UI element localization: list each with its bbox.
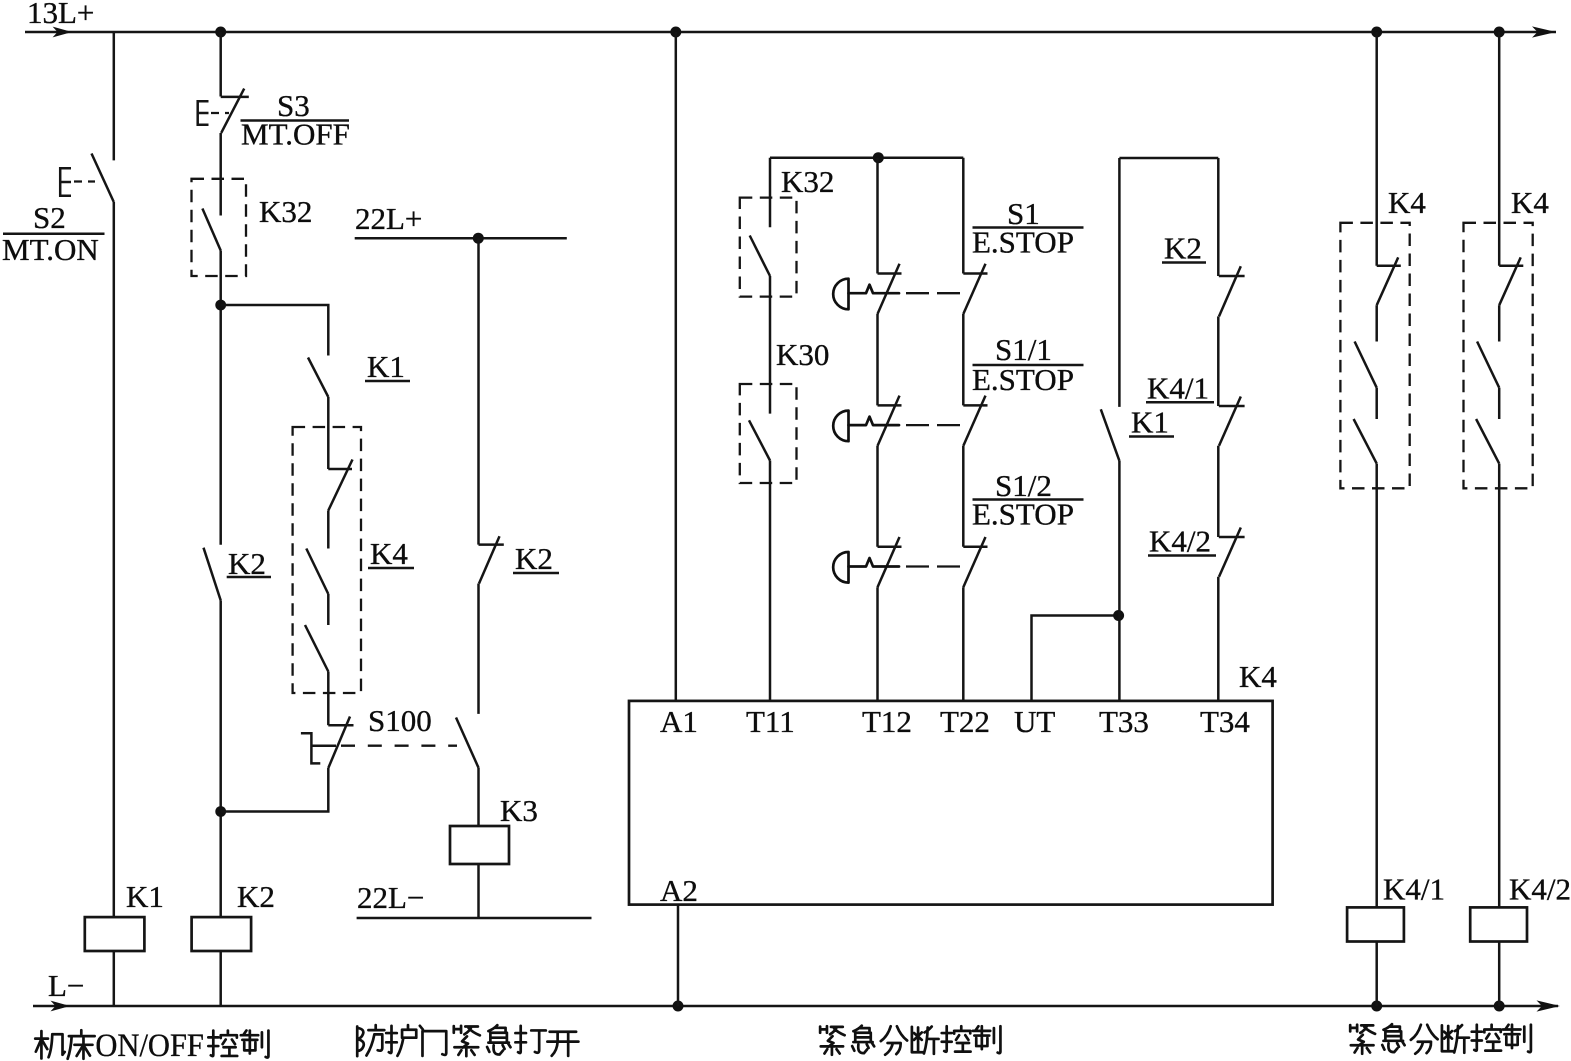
relay contact K4/2 (NC) [1219, 536, 1245, 539]
svg-text:K4: K4 [1388, 185, 1426, 220]
wire K32 to K30 [769, 276, 772, 414]
switch S1/1 contact (NC) [963, 404, 987, 407]
svg-text:E.STOP: E.STOP [972, 225, 1074, 260]
actuator E symbol of S2 [60, 168, 71, 195]
svg-text:K4/1: K4/1 [1383, 872, 1445, 907]
wire branch1 upper [113, 32, 116, 160]
mushroom head actuator row1 [833, 279, 848, 310]
wire K4/1 coil to bottom bus [1375, 942, 1378, 1007]
caption: emergency cutoff control (middle) [820, 1026, 1000, 1055]
node branch2 / S100 return [215, 806, 226, 817]
arrow at bottom bus right end [1537, 1000, 1561, 1011]
caption: machine ON/OFF control [35, 1028, 268, 1061]
svg-text:K2: K2 [237, 879, 275, 914]
relay coil K2 [192, 917, 252, 951]
svg-text:K1: K1 [1131, 405, 1169, 440]
mushroom head actuator row3 [833, 552, 848, 583]
relay contact K32 (NO, in dashed box) [192, 179, 247, 276]
wire 22L+ rail [355, 237, 567, 240]
node on bottom bus at K4/1 branch [1371, 1001, 1382, 1012]
actuator E symbol of S3 [198, 101, 209, 125]
node on bottom bus at K4/2 branch [1494, 1001, 1505, 1012]
relay contact group K4 (3 NO contacts in dashed box) [293, 427, 361, 693]
wire coil K2 to bottom bus [219, 951, 222, 1006]
svg-text:E.STOP: E.STOP [972, 362, 1074, 397]
dashed actuator link of S3 [211, 112, 229, 114]
svg-text:K4/2: K4/2 [1509, 872, 1571, 907]
node on top bus at K4/1 branch [1371, 27, 1382, 38]
dashed link row3 [906, 565, 929, 567]
e-stop contact row1 (NC) on T12 line [878, 272, 902, 275]
wire S1/1 to S1/2 [962, 446, 965, 547]
wire row2-row3 [876, 446, 879, 547]
switch S1 contact (NC) [963, 272, 987, 275]
svg-text:K1: K1 [367, 349, 405, 384]
svg-text:UT: UT [1014, 704, 1055, 739]
wire A2 to bottom bus [677, 905, 680, 1006]
svg-text:K32: K32 [781, 164, 834, 199]
relay contact K30 (NO, dashed box) [740, 384, 797, 483]
wire K4/2 coil to bottom bus [1498, 942, 1501, 1007]
switch S2 (MT.ON pushbutton, NO contact) [92, 154, 114, 203]
wire K4/1 branch upper [1375, 32, 1378, 266]
svg-text:A2: A2 [660, 873, 698, 908]
node UT/T33 junction [1113, 610, 1124, 621]
wire 22L- rail [357, 917, 592, 920]
svg-text:K4: K4 [370, 536, 408, 571]
wire K4 box to K4/2 coil [1498, 464, 1501, 908]
wire row3 to T12 terminal [876, 587, 879, 701]
relay coil K1 [85, 917, 145, 951]
dashed actuator link of S2 [74, 180, 95, 182]
svg-text:K30: K30 [776, 337, 829, 372]
dashed actuator link S100 [341, 745, 457, 747]
arrow on bottom bus left [51, 1001, 71, 1012]
wire K1 to T33 terminal [1118, 461, 1121, 701]
wire K2 contact to coil [219, 600, 222, 917]
position switch S100 (second pole, NO style) [456, 718, 479, 768]
svg-text:K3: K3 [500, 793, 538, 828]
svg-text:K4: K4 [1239, 659, 1277, 694]
svg-text:T12: T12 [862, 704, 912, 739]
wire UT terminal riser [1032, 616, 1119, 701]
wire S3 to K32 contact [219, 133, 222, 216]
wire K4/1 to K4/2 contact [1217, 446, 1220, 537]
svg-text:A1: A1 [660, 704, 698, 739]
svg-text:T34: T34 [1200, 704, 1250, 739]
wire S1 to S1/1 [962, 314, 965, 405]
wire S100 to K3 coil [477, 768, 480, 826]
wire K2 chain upper [1217, 158, 1220, 276]
relay contact K2 (NO) [204, 548, 221, 601]
relay contact K2 (NC) right chain [1219, 275, 1245, 278]
wire A1 branch [675, 32, 678, 701]
relay contact K4/1 (NC) [1219, 405, 1245, 408]
wire K4 box to K4/1 coil [1375, 464, 1378, 908]
arrow on top bus left [53, 27, 72, 38]
wire K30 to T11 terminal [769, 461, 772, 701]
wire connector above K32/K30 and S1 chains [770, 156, 963, 159]
dashed link row1 [906, 292, 929, 294]
safety relay module U1 box [629, 701, 1273, 905]
svg-text:S100: S100 [368, 703, 432, 738]
node on 22L+ rail [473, 233, 484, 244]
actuator hook of S100 [301, 733, 336, 763]
svg-text:MT.ON: MT.ON [2, 232, 99, 267]
caption: emergency cutoff control (right) [1350, 1024, 1531, 1054]
relay contact K32 (NO, dashed box) [740, 198, 797, 297]
e-stop contact row3 (NC) on T12 line [878, 546, 902, 549]
wire K3 coil to 22L- rail [477, 864, 480, 918]
wire coil K1 to bottom bus [113, 951, 116, 1006]
wire K4/2 to T34 terminal [1217, 577, 1220, 701]
relay contact group K4 (dashed box, branch K4/1) [1340, 223, 1409, 489]
svg-text:K1: K1 [126, 879, 164, 914]
wire node to first contact [876, 158, 879, 274]
node on top bus at branch 2 [215, 27, 226, 38]
svg-text:K4/2: K4/2 [1149, 524, 1211, 559]
svg-text:K4: K4 [1511, 185, 1549, 220]
wire K2 NC to S100 right contact [477, 584, 480, 714]
svg-text:K2: K2 [515, 541, 553, 576]
svg-text:T22: T22 [940, 704, 990, 739]
svg-text:22L+: 22L+ [355, 201, 422, 236]
svg-text:K4/1: K4/1 [1147, 371, 1209, 406]
wire top bus 13L+ [25, 31, 1556, 34]
wire K4/2 branch upper [1498, 32, 1501, 266]
relay coil K4/1 [1347, 907, 1404, 941]
node on top bus at A1 branch [670, 27, 681, 38]
relay coil K4/2 [1470, 907, 1527, 941]
node on top bus at K4/2 branch [1494, 27, 1505, 38]
e-stop contact row2 (NC) on T12 line [878, 404, 902, 407]
relay contact group K4 (dashed box, branch K4/2) [1464, 223, 1533, 489]
wire K1 to K4 box [327, 397, 330, 469]
svg-text:S2: S2 [33, 200, 66, 235]
relay coil K3 [450, 826, 509, 864]
mushroom head actuator row2 [833, 411, 848, 442]
node on bottom bus at A2 branch [673, 1001, 684, 1012]
arrow at top bus right end [1532, 26, 1556, 37]
wire K32 to K2 contact [219, 251, 222, 545]
node branch2 / door sub-branch [215, 300, 226, 311]
dashed link row2 [906, 424, 929, 426]
relay contact K1 (NO) [1101, 409, 1120, 461]
wire connector to K32 box [769, 158, 772, 228]
svg-text:T11: T11 [746, 704, 795, 739]
wire K1 chain upper [1118, 158, 1121, 407]
switch S1/2 contact (NC) [963, 546, 987, 549]
svg-text:E.STOP: E.STOP [972, 497, 1074, 532]
svg-text:13L+: 13L+ [27, 0, 94, 30]
node T12 chain top [873, 152, 884, 163]
wire bottom bus L- [33, 1005, 1558, 1008]
svg-text:ON/OFF: ON/OFF [95, 1028, 203, 1061]
svg-text:22L−: 22L− [357, 880, 424, 915]
wire K4 box to S100 [327, 672, 330, 726]
position switch S100 (NC contact) [328, 724, 353, 727]
switch S3 (MT.OFF pushbutton, NC contact) [221, 96, 249, 99]
wire branch2 from top bus [219, 32, 222, 97]
svg-text:MT.OFF: MT.OFF [241, 117, 350, 152]
relay contact K2 (NC) [479, 543, 504, 546]
svg-text:K2: K2 [1164, 231, 1202, 266]
wire S100 return to branch2 node [221, 768, 329, 812]
wire K2 to K4/1 contact [1217, 316, 1220, 406]
wire 22L+ to K2 contact [477, 238, 480, 544]
svg-text:L−: L− [48, 968, 84, 1003]
wire bracket over K1/K2 chains [1119, 157, 1218, 160]
wire branch1 lower [113, 202, 116, 917]
svg-text:T33: T33 [1099, 704, 1149, 739]
relay contact K1 (NO) [308, 358, 328, 398]
wire connector to S1 contact [962, 158, 965, 274]
wire node to sub-branch top [221, 305, 329, 356]
wire row1-row2 [876, 314, 879, 405]
wire S1/2 to T22 terminal [962, 587, 965, 701]
caption: protective door emergency open [357, 1025, 578, 1056]
svg-text:K32: K32 [259, 194, 312, 229]
